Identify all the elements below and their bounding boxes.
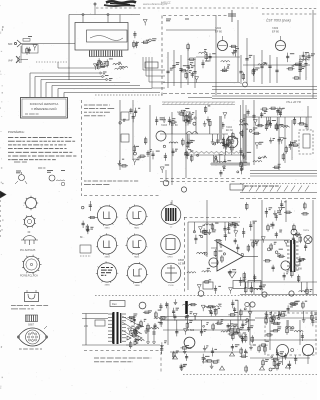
svg-text:7A03: 7A03: [272, 26, 279, 30]
svg-text:7AB1: 7AB1: [104, 226, 110, 229]
svg-text:6F33: 6F33: [168, 257, 174, 259]
svg-text:6RF: 6RF: [8, 43, 13, 46]
svg-text:POZNÁMKA:: POZNÁMKA:: [8, 130, 25, 134]
svg-text:7AB3: 7AB3: [104, 255, 110, 258]
svg-text:6F...: 6F...: [80, 237, 85, 239]
svg-text:220: 220: [84, 325, 89, 328]
svg-text:4A05.CZ: 4A05.CZ: [161, 2, 171, 5]
svg-text:ČT 506: ČT 506: [186, 329, 195, 332]
svg-text:VHF: VHF: [8, 60, 13, 63]
svg-text:EF 80: EF 80: [272, 30, 279, 34]
svg-text:TRČS: TRČS: [303, 229, 309, 232]
svg-text:Den: Den: [112, 302, 117, 306]
svg-text:EC 92: EC 92: [226, 129, 234, 132]
svg-text:PCF80,PCL,PCH: PCF80,PCL,PCH: [20, 276, 38, 278]
svg-text:S/807: S/807: [28, 325, 35, 327]
svg-text:PCL 82/PCL85: PCL 82/PCL85: [20, 250, 36, 252]
svg-text:7AB5: 7AB5: [104, 283, 110, 286]
svg-text:HF 608: HF 608: [294, 268, 303, 271]
svg-text:7A02: 7A02: [215, 26, 222, 30]
svg-text:F808: F808: [178, 258, 184, 262]
svg-text:7AB4: 7AB4: [134, 255, 140, 258]
svg-text:7AB2: 7AB2: [134, 226, 140, 229]
svg-text:PL36: PL36: [168, 285, 174, 287]
svg-text:7AB6: 7AB6: [134, 284, 140, 287]
svg-text:KONCOVÁ JEDNOTKA: KONCOVÁ JEDNOTKA: [30, 102, 59, 106]
svg-text:ČST 7003 (zvuk): ČST 7003 (zvuk): [266, 18, 291, 23]
svg-text:EF 80: EF 80: [215, 30, 222, 34]
svg-text:7A03: 7A03: [161, 124, 167, 127]
svg-text:AZ 80: AZ 80: [178, 262, 185, 266]
svg-text:VN-L 20 TR: VN-L 20 TR: [286, 100, 301, 104]
